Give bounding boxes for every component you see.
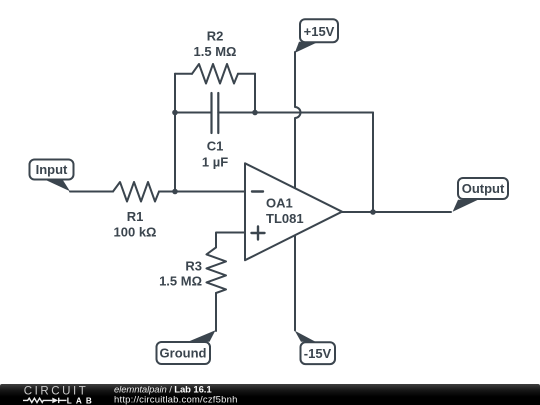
wire R3 to ground flag: [215, 293, 217, 331]
svg-text:TL081: TL081: [266, 211, 304, 226]
svg-text:Output: Output: [462, 181, 505, 196]
wire R2 left lead: [175, 73, 192, 75]
svg-text:100 kΩ: 100 kΩ: [114, 225, 157, 240]
svg-text:Ground: Ground: [160, 346, 207, 361]
svg-text:LAB: LAB: [67, 396, 96, 405]
footer bar: [0, 384, 540, 405]
wire node to C1 left plate: [175, 112, 212, 114]
node junction at R1 / feedback: [172, 189, 178, 195]
svg-text:C1: C1: [207, 139, 224, 154]
svg-text:R1: R1: [127, 209, 144, 224]
wire op-amp output: [342, 211, 451, 213]
wire right vertical of feedback loop: [254, 74, 256, 113]
op-amp plus input symbol: [252, 227, 265, 240]
resistor R3: [207, 247, 227, 293]
svg-text:1 µF: 1 µF: [202, 155, 228, 170]
resistor R2: [192, 64, 238, 84]
flag +15V: [295, 19, 338, 53]
node junction at output: [370, 209, 376, 215]
flag Input: [30, 160, 74, 192]
svg-text:http://circuitlab.com/czf5bnh: http://circuitlab.com/czf5bnh: [114, 394, 238, 405]
wire -15V supply: [294, 236, 296, 330]
svg-text:Input: Input: [36, 162, 68, 177]
node junction at C1 right: [252, 110, 258, 116]
node junction at C1 left: [172, 110, 178, 116]
flag Output: [453, 178, 508, 212]
svg-text:-15V: -15V: [304, 346, 332, 361]
op-amp U1 triangle: [245, 163, 342, 260]
svg-text:OA1: OA1: [266, 196, 293, 211]
wire C1 right plate to feedback node: [218, 112, 373, 114]
svg-text:R3: R3: [185, 259, 202, 274]
svg-text:+15V: +15V: [304, 24, 335, 39]
flag -15V: [295, 331, 335, 364]
capacitor C1: [212, 93, 219, 133]
wire R2 right lead: [238, 73, 255, 75]
resistor R1: [113, 182, 159, 202]
svg-text:1.5 MΩ: 1.5 MΩ: [159, 274, 202, 289]
svg-text:1.5 MΩ: 1.5 MΩ: [194, 44, 237, 59]
wire left vertical branch: [174, 74, 176, 192]
wire input to R1: [70, 191, 113, 193]
wire +15V with hop over feedback wire: [295, 52, 301, 235]
flag Ground: [157, 330, 216, 364]
svg-text:R2: R2: [207, 29, 224, 44]
CircuitLab logo circuit icon: [23, 398, 67, 403]
wire R1 to op-amp inverting input: [159, 191, 245, 193]
CircuitLab logo diode: [52, 398, 58, 404]
wire feedback down to output: [372, 113, 374, 213]
op-amp minus input symbol: [252, 190, 263, 192]
wire op-amp noninverting input: [216, 233, 245, 248]
